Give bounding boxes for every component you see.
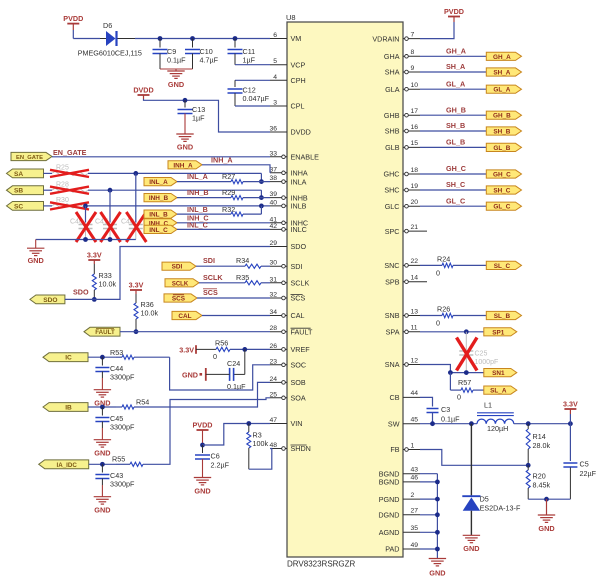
- ground for C6: [194, 477, 211, 479]
- DNP cross over R25: [50, 170, 89, 177]
- svg-text:28: 28: [269, 325, 277, 332]
- svg-text:VIN: VIN: [291, 419, 303, 428]
- tag INH_C: [144, 219, 177, 227]
- svg-text:R57: R57: [458, 378, 471, 387]
- svg-text:SNA: SNA: [385, 360, 400, 369]
- svg-text:SH_B: SH_B: [493, 129, 510, 136]
- svg-text:GL_A: GL_A: [493, 87, 510, 94]
- svg-text:FAULT: FAULT: [291, 327, 313, 336]
- svg-text:D5: D5: [480, 495, 489, 504]
- pin 45 SW (right): [403, 423, 420, 425]
- svg-text:GND: GND: [538, 524, 554, 533]
- svg-text:27: 27: [411, 508, 419, 515]
- tag IB: [43, 403, 88, 412]
- svg-text:GLC: GLC: [385, 202, 400, 211]
- resistor R56 0: [196, 348, 216, 350]
- svg-text:VDRAIN: VDRAIN: [372, 34, 399, 43]
- svg-text:23: 23: [269, 358, 277, 365]
- wire INH_A to pin 37 INHA: [202, 165, 270, 173]
- svg-text:SNB: SNB: [385, 311, 400, 320]
- pin 14 SPB (right): [403, 281, 427, 283]
- pin 20 GLC (right): [403, 205, 420, 207]
- tag INL_A: [144, 178, 177, 186]
- resistor R20 8.45k: [527, 465, 529, 470]
- svg-text:37: 37: [269, 166, 277, 173]
- wire C12 to pin 3 CPL: [235, 105, 270, 107]
- svg-text:IB: IB: [65, 405, 72, 412]
- tag FAULT: [84, 327, 120, 336]
- tag GH_C: [486, 170, 521, 178]
- svg-text:DVDD: DVDD: [133, 86, 153, 95]
- DNP cross over C47: [101, 212, 121, 242]
- pin 39 INHB (left): [270, 197, 287, 199]
- svg-text:GND: GND: [194, 486, 210, 495]
- tag EN_GATE: [11, 152, 52, 160]
- tag SH_B: [486, 127, 521, 135]
- diode D6 PMEG6010CEJ,115: [106, 31, 116, 46]
- wire R20/C5 bottoms to ground: [528, 498, 570, 500]
- svg-text:120µH: 120µH: [487, 424, 508, 433]
- tag SL_B: [486, 311, 521, 319]
- svg-text:SOC: SOC: [291, 361, 307, 370]
- tag GH_A: [486, 52, 521, 60]
- pin 25 SOA (left): [270, 397, 287, 399]
- svg-text:INL_A: INL_A: [187, 172, 208, 181]
- svg-text:28.0k: 28.0k: [533, 441, 551, 450]
- svg-text:SHC: SHC: [384, 186, 399, 195]
- svg-text:5: 5: [273, 58, 277, 65]
- pin 38 INLA (left): [270, 181, 287, 183]
- svg-text:36: 36: [269, 126, 277, 133]
- pin 7 VDRAIN (right): [403, 38, 420, 40]
- svg-text:R14: R14: [533, 432, 546, 441]
- tag INH_A: [168, 161, 202, 169]
- svg-text:31: 31: [269, 276, 277, 283]
- svg-text:R29: R29: [222, 188, 235, 197]
- wire SB row to INHB junction: [44, 189, 53, 191]
- pin 4 CPH (left): [270, 79, 287, 81]
- node junction filter cap CA top: [133, 171, 138, 176]
- svg-text:8: 8: [411, 49, 415, 56]
- pin 31 SCLK (left): [270, 282, 287, 284]
- pin 33 ENABLE (left): [270, 156, 287, 158]
- svg-text:SCS: SCS: [203, 288, 218, 297]
- svg-text:GND: GND: [94, 449, 110, 458]
- svg-text:0: 0: [436, 269, 440, 278]
- svg-text:GH_C: GH_C: [446, 164, 466, 173]
- svg-text:GLA: GLA: [385, 85, 400, 94]
- tag GH_B: [486, 111, 521, 119]
- wire GH_A: [420, 55, 486, 57]
- svg-text:4.7µF: 4.7µF: [200, 56, 219, 65]
- svg-text:16: 16: [411, 124, 419, 131]
- tag SL_A: [484, 386, 517, 394]
- node junction C10 top: [190, 36, 195, 41]
- svg-text:SW: SW: [388, 419, 400, 428]
- node junction C25 bottom: [464, 370, 469, 375]
- wire IC row: [88, 356, 116, 358]
- node junction FB/R14/R20: [526, 463, 531, 468]
- svg-text:4: 4: [273, 74, 277, 81]
- pin 32 SCS (left): [270, 297, 287, 299]
- svg-text:44: 44: [411, 390, 419, 397]
- wire EN_GATE to pin 33 ENABLE: [52, 156, 270, 158]
- wire GL_A: [420, 88, 486, 90]
- svg-text:R27: R27: [222, 172, 235, 181]
- pin 13 SNB (right): [403, 315, 420, 317]
- svg-text:VCP: VCP: [291, 60, 306, 69]
- svg-text:GND: GND: [429, 569, 445, 578]
- node junction R36 to FAULT wire: [134, 329, 139, 334]
- svg-text:24: 24: [269, 376, 277, 383]
- svg-text:C24: C24: [227, 359, 240, 368]
- svg-text:EN_GATE: EN_GATE: [53, 148, 87, 157]
- pin 36 DVDD (left): [270, 131, 287, 133]
- wire INL_C to pin 42: [177, 228, 270, 230]
- ground for R20/C5: [546, 499, 548, 515]
- svg-text:GHA: GHA: [384, 52, 400, 61]
- tag CAL: [172, 311, 202, 319]
- svg-text:R35: R35: [236, 273, 249, 282]
- svg-text:GL_C: GL_C: [446, 196, 465, 205]
- svg-text:SCLK: SCLK: [203, 273, 223, 282]
- svg-text:SC: SC: [14, 203, 23, 210]
- svg-text:35: 35: [411, 525, 419, 532]
- svg-text:SPB: SPB: [385, 277, 400, 286]
- pin 37 INHA (left): [270, 172, 287, 174]
- tag SDI: [162, 262, 196, 270]
- DNP cross over C46: [76, 212, 96, 242]
- pin 41 INHC (left): [270, 222, 287, 224]
- svg-text:GND: GND: [182, 370, 198, 379]
- svg-text:BGND: BGND: [379, 478, 400, 487]
- svg-text:21: 21: [411, 224, 419, 231]
- svg-text:0.1µF: 0.1µF: [441, 415, 460, 424]
- node junction C43 top: [100, 462, 105, 467]
- svg-text:GHB: GHB: [384, 111, 400, 120]
- ground for C43: [94, 496, 111, 498]
- svg-text:0.1µF: 0.1µF: [167, 56, 186, 65]
- svg-text:39: 39: [269, 191, 277, 198]
- svg-text:C6: C6: [211, 452, 220, 461]
- node junction PAD: [435, 547, 440, 552]
- wire PVDD down to C6/VIN node: [202, 430, 204, 445]
- tag INL_C: [144, 225, 177, 233]
- wire pin 45 SW rail: [420, 423, 477, 425]
- svg-text:IA_IDC: IA_IDC: [57, 462, 78, 469]
- pin 11 SPA (right): [403, 331, 420, 333]
- svg-text:22µF: 22µF: [580, 469, 597, 478]
- svg-text:FB: FB: [390, 445, 399, 454]
- capacitor C45 3300pF: [101, 407, 103, 416]
- pin 16 SHB (right): [403, 130, 420, 132]
- svg-text:VM: VM: [291, 34, 302, 43]
- svg-text:R26: R26: [437, 305, 450, 314]
- capacitor C48 DNP (on SA row): [135, 173, 137, 222]
- ground for IC ground pins: [429, 558, 446, 560]
- node junction INL_B joins pin 40 row: [259, 204, 264, 209]
- svg-text:2: 2: [411, 492, 415, 499]
- pin 23 SOC (left): [270, 364, 287, 366]
- node junction C13 top: [183, 98, 188, 103]
- svg-text:R56: R56: [215, 338, 228, 347]
- svg-text:0: 0: [436, 319, 440, 328]
- svg-text:3300pF: 3300pF: [110, 423, 135, 432]
- svg-text:6: 6: [273, 32, 277, 39]
- op-amp U8 DRV8323RSRGZR gate driver IC body: [287, 22, 403, 557]
- tag INH_B: [144, 194, 177, 202]
- capacitor C6 2.2uF: [202, 445, 204, 453]
- capacitor C25 1000pF DNP: [465, 332, 467, 351]
- pin 22 SNC (right): [403, 264, 420, 266]
- svg-text:SNC: SNC: [384, 261, 399, 270]
- svg-text:40: 40: [269, 199, 277, 206]
- wire IA_IDC row: [89, 463, 116, 465]
- svg-text:SOB: SOB: [291, 378, 306, 387]
- svg-text:3: 3: [273, 100, 277, 107]
- svg-text:AGND: AGND: [379, 528, 400, 537]
- tag IC: [43, 353, 88, 362]
- pin 3 CPL (left): [270, 105, 287, 107]
- wire SA row to INLA junction: [44, 172, 53, 174]
- pin 28 FAULT (left): [270, 331, 287, 333]
- node junction AGND: [435, 530, 440, 535]
- svg-text:INH_B: INH_B: [149, 195, 169, 202]
- svg-text:10.0k: 10.0k: [141, 309, 159, 318]
- wire pin 1 FB to divider: [420, 450, 528, 466]
- svg-text:1µF: 1µF: [192, 114, 205, 123]
- pin 12 SNA (right): [403, 364, 420, 366]
- wire SCS to pin 32: [197, 297, 270, 299]
- wire L1 to 3.3V node: [514, 423, 571, 425]
- svg-text:INH_B: INH_B: [187, 188, 209, 197]
- pin 49 PAD (right): [403, 548, 420, 550]
- svg-text:PVDD: PVDD: [63, 14, 83, 23]
- pin 19 SHC (right): [403, 189, 420, 191]
- svg-text:C5: C5: [580, 460, 589, 469]
- wire VDRAIN to PVDD: [420, 22, 454, 39]
- node junction PVDD/C6: [200, 443, 205, 448]
- pin 27 DGND (right): [403, 514, 420, 516]
- wire C9/C10 bottoms joined: [160, 68, 193, 70]
- svg-text:GH_A: GH_A: [446, 47, 466, 56]
- svg-text:9: 9: [411, 65, 415, 72]
- wire SDO to pin 29: [65, 247, 270, 300]
- svg-text:38: 38: [269, 175, 277, 182]
- node junction C11 top: [233, 36, 238, 41]
- wire R55 to pin 25 SOA: [143, 398, 270, 465]
- wire pin 4 CPH to C12: [235, 79, 270, 81]
- node junction filter cap CB top: [108, 188, 113, 193]
- wire FAULT to pin 28: [120, 331, 270, 333]
- node junction filter cap CC top: [83, 204, 88, 209]
- wire SH_C: [420, 189, 486, 191]
- pin 40 INLB (left): [270, 205, 287, 207]
- svg-text:U8: U8: [286, 13, 296, 22]
- resistor R14 28.0k: [527, 424, 529, 429]
- svg-text:8.45k: 8.45k: [533, 481, 551, 490]
- svg-text:CB: CB: [390, 393, 400, 402]
- svg-text:FAULT: FAULT: [95, 329, 115, 336]
- svg-text:R54: R54: [136, 398, 149, 407]
- tag GL_A: [486, 85, 521, 93]
- capacitor C24 0.1uF: [244, 349, 246, 374]
- pin 26 VREF (left): [270, 348, 287, 350]
- capacitor C46 DNP (on SC row): [85, 206, 87, 223]
- svg-text:R20: R20: [533, 472, 546, 481]
- svg-text:10.0k: 10.0k: [99, 280, 117, 289]
- svg-text:PAD: PAD: [385, 545, 399, 554]
- capacitor C47 DNP (on SB row): [109, 190, 111, 222]
- svg-text:22: 22: [411, 258, 419, 265]
- tag SL_C: [486, 261, 521, 269]
- node junction divider ground: [544, 497, 549, 502]
- wire DNP caps bottom rail to ground: [36, 239, 136, 241]
- svg-text:42: 42: [269, 223, 277, 230]
- pin 2 PGND (right): [403, 498, 420, 500]
- node junction D5 top: [469, 421, 474, 426]
- svg-text:43: 43: [411, 467, 419, 474]
- pin 17 GHB (right): [403, 114, 420, 116]
- svg-text:SCLK: SCLK: [291, 279, 310, 288]
- svg-text:D6: D6: [103, 21, 112, 30]
- svg-text:SOA: SOA: [291, 394, 306, 403]
- svg-text:R55: R55: [112, 455, 125, 464]
- svg-text:GHC: GHC: [384, 170, 400, 179]
- svg-text:GL_B: GL_B: [493, 145, 510, 152]
- wire SH_B: [420, 130, 486, 132]
- svg-text:GH_C: GH_C: [493, 172, 511, 179]
- svg-text:INL_A: INL_A: [149, 179, 168, 186]
- node junction C44 top: [100, 355, 105, 360]
- svg-text:INL_C: INL_C: [187, 221, 208, 230]
- svg-text:13: 13: [411, 308, 419, 315]
- svg-text:SDI: SDI: [172, 264, 183, 271]
- capacitor C43 3300pF: [101, 464, 103, 472]
- pin 18 GHC (right): [403, 173, 420, 175]
- wire GH_C: [420, 173, 486, 175]
- svg-text:3300pF: 3300pF: [110, 480, 135, 489]
- wire INL_B up to pin 40 row: [243, 213, 261, 215]
- pin 5 VCP (left): [270, 64, 287, 66]
- svg-text:GLB: GLB: [385, 143, 400, 152]
- svg-text:14: 14: [411, 275, 419, 282]
- svg-text:SHA: SHA: [385, 68, 400, 77]
- svg-text:R32: R32: [222, 205, 235, 214]
- wire ground rail for BGND/PGND/DGND/AGND/PAD: [420, 473, 437, 475]
- svg-text:SL_C: SL_C: [494, 263, 511, 270]
- svg-text:3.3V: 3.3V: [87, 251, 102, 260]
- wire R3 to pin 48 SHDN: [249, 449, 272, 470]
- svg-text:12: 12: [411, 357, 419, 364]
- wire C11 to pin 5 VCP: [235, 64, 270, 66]
- node junction DGND: [435, 512, 440, 517]
- svg-text:GH_B: GH_B: [493, 113, 511, 120]
- svg-text:45: 45: [411, 417, 419, 424]
- tag GL_C: [486, 202, 521, 210]
- svg-text:47: 47: [269, 417, 277, 424]
- svg-text:GND: GND: [177, 143, 193, 152]
- svg-text:SCLK: SCLK: [172, 281, 189, 287]
- pin 34 CAL (left): [270, 315, 287, 317]
- svg-text:46: 46: [411, 475, 419, 482]
- svg-text:DGND: DGND: [378, 511, 399, 520]
- resistor R36 10.0k pull-up: [135, 290, 137, 294]
- wire GL_B: [420, 146, 486, 148]
- wire DVDD to pin 36: [143, 95, 145, 99]
- ground for C9/C10: [175, 69, 177, 71]
- svg-text:3.3V: 3.3V: [179, 345, 194, 354]
- wire SC row to pin 40 INLB: [44, 205, 53, 207]
- pin 24 SOB (left): [270, 381, 287, 383]
- svg-text:INL_B: INL_B: [149, 212, 168, 219]
- tag SCS: [164, 294, 197, 302]
- svg-text:PGND: PGND: [379, 495, 400, 504]
- pin 21 SPC (right): [403, 230, 427, 232]
- svg-text:GH_B: GH_B: [446, 105, 466, 114]
- wire PVDD to D6 anode: [72, 24, 74, 30]
- svg-text:DVDD: DVDD: [291, 128, 311, 137]
- svg-text:C25: C25: [475, 351, 488, 358]
- node junction C9 top: [158, 36, 163, 41]
- tag SB: [7, 186, 44, 195]
- svg-text:SPA: SPA: [386, 328, 400, 337]
- svg-text:SDO: SDO: [291, 242, 307, 251]
- node junction C25 top: [464, 329, 469, 334]
- pin 6 VM (left): [270, 38, 287, 40]
- tag SC: [7, 202, 44, 211]
- svg-text:CAL: CAL: [291, 311, 305, 320]
- svg-text:1000pF: 1000pF: [475, 359, 499, 366]
- diode D5 ES2DA-13-F: [470, 424, 472, 496]
- svg-text:EN_GATE: EN_GATE: [16, 155, 43, 161]
- pin 1 FB (right): [403, 449, 420, 451]
- capacitor C9 0.1uF: [159, 39, 161, 48]
- svg-text:SHDN: SHDN: [291, 444, 311, 453]
- svg-text:SH_B: SH_B: [446, 121, 465, 130]
- wire SNA node down to R57: [449, 373, 451, 391]
- svg-text:SN1: SN1: [492, 370, 505, 377]
- node junction 3.3V/C5: [568, 421, 573, 426]
- svg-text:19: 19: [411, 183, 419, 190]
- DNP cross over R28: [50, 187, 89, 194]
- pin 43 BGND (right): [403, 473, 420, 475]
- tag SCLK: [165, 279, 199, 287]
- node junction PGND: [435, 497, 440, 502]
- svg-text:CAL: CAL: [178, 313, 191, 320]
- capacitor C3 0.1uF: [427, 408, 439, 410]
- svg-text:GL_C: GL_C: [493, 204, 510, 211]
- svg-text:L1: L1: [484, 401, 492, 410]
- capacitor C11 1uF: [234, 39, 236, 48]
- svg-text:7: 7: [411, 31, 415, 38]
- node junction VREF/C24: [242, 347, 247, 352]
- DNP cross over R30: [50, 202, 89, 209]
- wire GL_C: [420, 205, 486, 207]
- DNP cross over C25: [457, 338, 478, 371]
- wire INH_C to pin 41: [177, 222, 270, 224]
- svg-text:SHB: SHB: [385, 127, 400, 136]
- svg-text:33: 33: [269, 150, 277, 157]
- svg-text:ENABLE: ENABLE: [291, 153, 320, 162]
- svg-text:3.3V: 3.3V: [563, 400, 578, 409]
- svg-text:ES2DA-13-F: ES2DA-13-F: [480, 504, 521, 513]
- ground for DNP caps: [35, 240, 37, 249]
- svg-text:34: 34: [269, 309, 277, 316]
- svg-text:0.047µF: 0.047µF: [243, 94, 270, 103]
- ground for C44: [94, 389, 111, 391]
- node junction VIN/R3: [246, 421, 251, 426]
